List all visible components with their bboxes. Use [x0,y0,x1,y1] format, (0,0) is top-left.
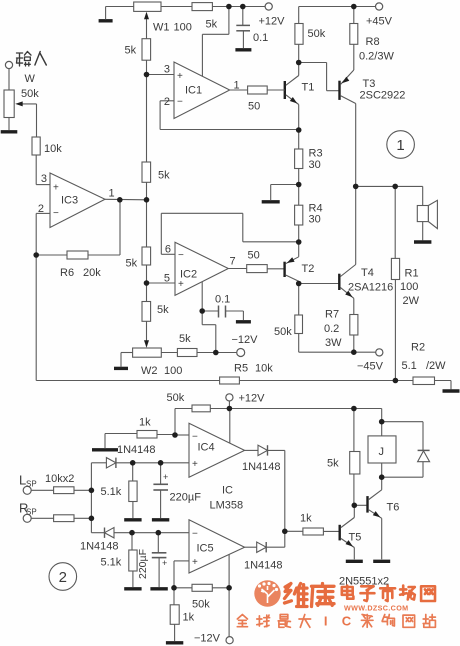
svg-text:2: 2 [164,96,170,108]
svg-text:J: J [379,446,385,458]
svg-text:50: 50 [248,101,260,113]
svg-text:3: 3 [164,64,170,76]
svg-text:−12V: −12V [232,334,259,346]
svg-text:W1: W1 [153,22,170,34]
svg-text:50k: 50k [21,88,39,100]
svg-text:3W: 3W [325,337,342,349]
svg-text:1: 1 [396,137,404,154]
svg-text:2: 2 [38,203,44,215]
svg-text:100: 100 [400,281,418,293]
svg-text:T6: T6 [387,502,400,514]
svg-text:50k: 50k [274,326,292,338]
svg-text:−: − [177,97,183,108]
svg-text:5k: 5k [327,458,339,470]
svg-text:/2W: /2W [426,360,446,372]
svg-text:30: 30 [309,159,321,171]
svg-text:30: 30 [309,214,321,226]
svg-text:+: + [53,183,59,194]
svg-text:R3: R3 [309,148,323,160]
svg-text:10k: 10k [255,363,273,375]
svg-text:R1: R1 [405,268,419,280]
svg-text:+12V: +12V [239,393,266,405]
svg-text:2SA1216: 2SA1216 [348,282,393,294]
svg-text:0.2: 0.2 [324,323,339,335]
svg-text:+: + [163,472,168,482]
svg-text:+12V: +12V [259,16,286,28]
svg-text:2SC2922: 2SC2922 [360,90,406,102]
svg-text:1N4148: 1N4148 [242,461,281,473]
svg-text:5k: 5k [158,170,170,182]
svg-text:5k: 5k [206,19,218,31]
svg-text:220µF: 220µF [170,492,202,504]
svg-text:−12V: −12V [194,633,221,645]
svg-text:2: 2 [59,569,67,586]
svg-text:5k: 5k [126,258,138,270]
svg-text:2W: 2W [403,295,420,307]
svg-text:T2: T2 [302,263,315,275]
svg-text:10k: 10k [44,143,62,155]
svg-text:+: + [162,558,167,568]
svg-text:100: 100 [164,365,182,377]
svg-text:10kx2: 10kx2 [45,473,74,485]
svg-text:50k: 50k [192,599,210,611]
svg-text:+: + [178,279,184,290]
svg-text:7: 7 [230,256,236,268]
svg-text:5k: 5k [125,45,137,57]
svg-text:1k: 1k [183,612,195,624]
svg-text:IC2: IC2 [180,269,197,281]
svg-text:−45V: −45V [357,361,384,373]
svg-text:C: C [342,614,352,629]
svg-text:−: − [192,529,198,540]
svg-text:W2: W2 [141,365,158,377]
svg-text:20k: 20k [83,267,101,279]
svg-text:IC1: IC1 [185,85,202,97]
svg-text:R6: R6 [60,267,74,279]
svg-text:0.1: 0.1 [253,32,268,44]
svg-text:50: 50 [248,250,260,262]
svg-text:1k: 1k [139,417,151,429]
svg-text:0.1: 0.1 [215,294,230,306]
svg-text:1k: 1k [300,513,312,525]
svg-text:100: 100 [174,22,192,34]
svg-text:SP: SP [26,508,37,517]
svg-text:5: 5 [164,273,170,285]
svg-text:0.2/3W: 0.2/3W [359,51,394,63]
svg-text:1N4148: 1N4148 [117,444,156,456]
svg-text:R8: R8 [366,36,380,48]
svg-text:IC5: IC5 [197,543,214,555]
svg-text:5k: 5k [157,304,169,316]
svg-text:T5: T5 [349,532,362,544]
svg-text:1: 1 [109,188,115,200]
svg-text:+: + [192,557,198,568]
svg-text:5.1k: 5.1k [101,486,122,498]
svg-text:5.1k: 5.1k [101,557,122,569]
svg-text:+: + [177,71,183,82]
svg-text:W: W [25,73,36,85]
svg-text:1N4148: 1N4148 [244,560,283,572]
svg-text:1N4148: 1N4148 [80,541,119,553]
svg-text:R2: R2 [411,342,425,354]
svg-text:2N5551x2: 2N5551x2 [339,576,389,588]
svg-text:T1: T1 [302,82,315,94]
svg-text:5.1: 5.1 [402,360,417,372]
svg-text:−: − [53,208,59,219]
svg-text:+: + [192,459,198,470]
svg-text:IC3: IC3 [61,195,78,207]
svg-text:R7: R7 [325,309,339,321]
svg-text:220µF: 220µF [137,549,149,579]
svg-text:IC4: IC4 [198,442,215,454]
svg-text:6: 6 [165,244,171,256]
svg-text:3: 3 [41,173,47,185]
svg-text:1: 1 [234,80,240,92]
svg-text:+45V: +45V [366,16,393,28]
svg-text:LM358: LM358 [210,500,244,512]
svg-text:I: I [324,614,328,629]
svg-text:SP: SP [26,480,37,489]
svg-text:5k: 5k [179,333,191,345]
svg-text:50k: 50k [167,392,185,404]
svg-text:R5: R5 [234,363,248,375]
svg-text:50k: 50k [308,28,326,40]
svg-text:IC: IC [222,485,233,497]
svg-text:WWW.DZSC.COM: WWW.DZSC.COM [344,604,408,613]
svg-text:−: − [178,250,184,261]
svg-text:T3: T3 [363,78,376,90]
svg-text:T4: T4 [361,267,374,279]
